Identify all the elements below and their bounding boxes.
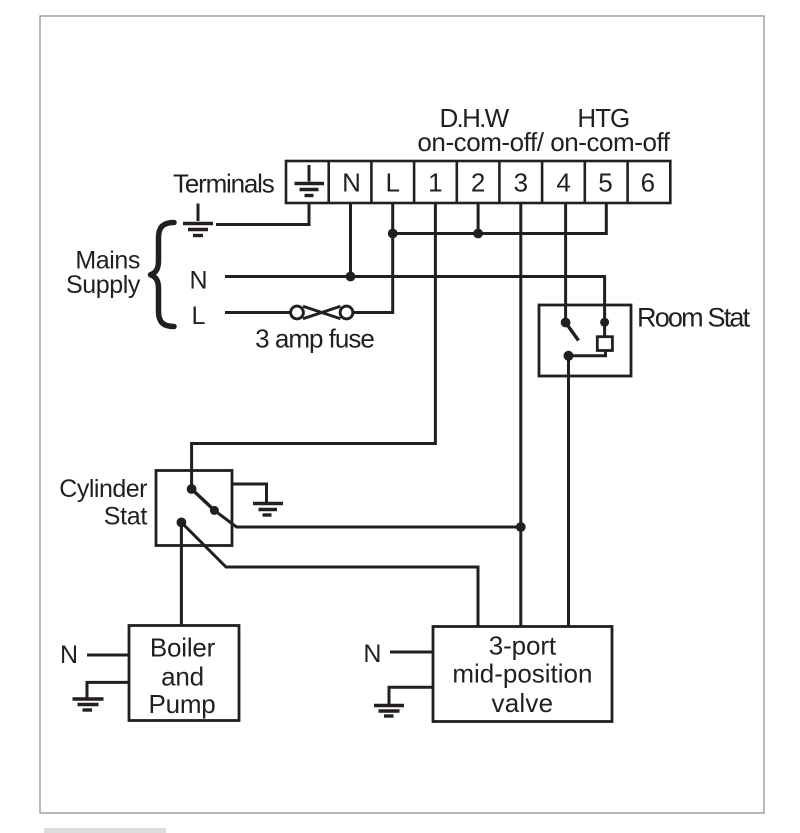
- svg-text:3 amp fuse: 3 amp fuse: [255, 324, 374, 354]
- wire terminal 2 drop: [477, 203, 480, 234]
- svg-text:Supply: Supply: [66, 271, 141, 299]
- wire terminal N drop: [349, 203, 352, 277]
- boiler box: [129, 626, 239, 721]
- label Room Stat: [637, 302, 751, 332]
- junction cylinder stat to terminal 3 wire: [516, 522, 526, 532]
- svg-text:N: N: [342, 168, 361, 198]
- label terminal N: [342, 168, 361, 198]
- svg-text:Pump: Pump: [148, 689, 215, 719]
- label HTG: [577, 103, 629, 133]
- svg-text:5: 5: [598, 168, 612, 198]
- wire right contact to resistor: [603, 322, 606, 336]
- wire terminal 1 to cylinder stat: [192, 203, 436, 489]
- wire cylinder stat low to valve: [181, 522, 478, 626]
- cylinder stat contact low: [177, 518, 187, 528]
- label Mains Supply: [66, 247, 141, 300]
- svg-text:valve: valve: [492, 688, 554, 718]
- terminal strip TB1: [286, 161, 670, 203]
- svg-text:N: N: [60, 641, 78, 669]
- wire earth terminal to mains earth: [216, 203, 309, 225]
- wire room stat to valve: [567, 356, 570, 627]
- wire cylinder stat mid to terminal 3: [214, 510, 520, 527]
- ground boiler earth symbol: [73, 699, 104, 710]
- label terminal 6: [641, 168, 655, 198]
- svg-text:6: 6: [641, 168, 655, 198]
- junction terminal N on mains N line: [346, 272, 356, 282]
- wire mains N line: [225, 277, 605, 323]
- label terminal 5: [598, 168, 612, 198]
- ground mains supply earth symbol: [183, 204, 213, 236]
- label terminal 3: [514, 168, 528, 198]
- label N valve: [363, 640, 381, 668]
- ground valve earth symbol: [374, 706, 404, 717]
- svg-text:Stat: Stat: [104, 503, 148, 531]
- room stat contact left: [561, 318, 571, 328]
- label terminal 1: [428, 168, 442, 198]
- svg-text:3-port: 3-port: [489, 631, 557, 661]
- wire N to valve: [390, 651, 433, 654]
- wire bottom contact to resistor: [569, 351, 606, 356]
- svg-text:N: N: [189, 266, 207, 294]
- ground terminal earth symbol: [295, 165, 325, 196]
- label 3-port mid-position valve: [452, 631, 592, 719]
- fuse F1 3 amp: [291, 306, 353, 319]
- svg-text:1: 1: [428, 168, 442, 198]
- brace mains supply: [151, 223, 175, 327]
- svg-text:4: 4: [556, 168, 570, 198]
- junction terminal 2 on link: [473, 229, 483, 239]
- room stat anticipator resistor: [597, 337, 612, 351]
- svg-text:Terminals: Terminals: [173, 169, 275, 199]
- wire fuse to terminal L: [354, 203, 393, 313]
- label terminal L: [385, 168, 399, 198]
- svg-text:Boiler: Boiler: [150, 633, 216, 663]
- svg-text:mid-position: mid-position: [452, 659, 592, 689]
- svg-text:Cylinder: Cylinder: [59, 475, 147, 503]
- svg-text:L: L: [385, 168, 399, 198]
- label terminal 4: [556, 168, 570, 198]
- cylinder stat contact mid: [210, 506, 219, 515]
- room stat switch arm: [566, 323, 579, 341]
- label Cylinder Stat: [59, 475, 147, 531]
- svg-text:2: 2: [471, 168, 485, 198]
- label N mains: [189, 266, 207, 294]
- valve box: [433, 627, 612, 722]
- svg-text:Room Stat: Room Stat: [637, 302, 751, 332]
- wire cylinder stat to earth: [232, 484, 267, 502]
- svg-text:3: 3: [514, 168, 528, 198]
- junction terminal L link: [388, 229, 398, 239]
- wire link L to terminal 5: [393, 203, 607, 234]
- wire N to boiler: [87, 654, 129, 657]
- room stat bottom contact: [564, 351, 574, 361]
- label Boiler and Pump: [148, 633, 215, 719]
- cylinder stat contact top: [187, 484, 197, 494]
- wire terminal 4 to room stat: [564, 203, 567, 323]
- label Terminals: [173, 169, 275, 199]
- svg-text:L: L: [192, 302, 206, 330]
- svg-text:on-com-off/ on-com-off: on-com-off/ on-com-off: [417, 127, 670, 157]
- svg-text:N: N: [363, 640, 381, 668]
- room stat contact right: [600, 318, 609, 327]
- label on-com-off/ on-com-off: [417, 127, 670, 157]
- label 3 amp fuse: [255, 324, 374, 354]
- wire valve to earth: [389, 687, 433, 704]
- wire boiler to earth: [87, 682, 129, 697]
- label N boiler: [60, 641, 78, 669]
- label D.H.W: [439, 103, 509, 133]
- cylinder stat box: [156, 471, 232, 546]
- cylinder stat switch arm: [192, 489, 215, 510]
- svg-text:and: and: [161, 661, 204, 691]
- ground cylinder stat earth symbol: [253, 504, 283, 516]
- label L mains: [192, 302, 206, 330]
- room stat box: [539, 305, 631, 376]
- wire cylinder stat low to boiler: [180, 522, 183, 626]
- wire terminal 3 to valve: [519, 203, 522, 627]
- label terminal 2: [471, 168, 485, 198]
- wire mains L to fuse: [225, 311, 290, 314]
